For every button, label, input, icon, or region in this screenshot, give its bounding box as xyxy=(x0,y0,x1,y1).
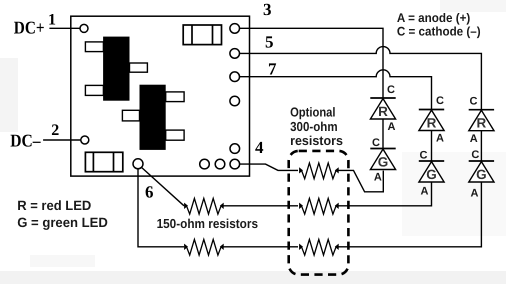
svg-text:R: R xyxy=(378,104,388,119)
svg-text:G: G xyxy=(476,167,487,182)
svg-text:R: R xyxy=(477,116,487,131)
svg-text:C = cathode (–): C = cathode (–) xyxy=(397,25,481,39)
svg-text:C: C xyxy=(470,96,478,108)
pin 5 xyxy=(230,49,240,59)
wire row3 between resistors xyxy=(223,246,298,248)
resistor 150-ohm row 2 xyxy=(185,198,224,214)
LED red D1 xyxy=(370,98,395,119)
svg-text:DC–: DC– xyxy=(10,131,41,151)
LED column 2 connecting wire xyxy=(431,130,433,161)
transistor Q2 (black body with 3 tabs) xyxy=(122,85,184,150)
resistor 150-ohm row 3 xyxy=(185,239,224,255)
wire DC- to pin 2 xyxy=(43,139,81,141)
unused pin xyxy=(230,96,240,106)
svg-text:6: 6 xyxy=(145,182,154,201)
svg-text:A: A xyxy=(471,188,479,200)
LED red D5 xyxy=(469,110,494,131)
svg-text:5: 5 xyxy=(265,32,274,51)
wire pin 5 to LED column 3 (hops over column-1 wire) xyxy=(240,47,482,110)
svg-text:2: 2 xyxy=(51,122,59,139)
svg-text:150-ohm resistors: 150-ohm resistors xyxy=(157,216,258,231)
svg-text:G: G xyxy=(378,155,389,170)
svg-text:R = red LED: R = red LED xyxy=(17,198,91,213)
LED green D2 xyxy=(370,149,395,170)
faint background patches xyxy=(0,58,18,132)
svg-text:A = anode (+): A = anode (+) xyxy=(397,11,470,25)
svg-text:R: R xyxy=(427,116,437,131)
svg-text:C: C xyxy=(387,84,395,96)
LED green D6 xyxy=(469,161,494,182)
wire resistor row1 to LED column 1 bottom (detour under label) xyxy=(338,170,383,191)
wire pin 6 down and right to 150-ohm resistor row 3 xyxy=(138,169,184,247)
pin 6 xyxy=(133,159,143,169)
circuit board outline xyxy=(71,16,250,176)
LED red D3 xyxy=(419,110,444,131)
dashed optional-resistor box xyxy=(289,151,349,275)
svg-text:7: 7 xyxy=(268,60,277,79)
wire DC+ to pin 1 xyxy=(49,27,80,29)
wire pin 3 to LED column 1 xyxy=(240,28,383,98)
svg-text:C: C xyxy=(436,95,444,107)
LED green D4 xyxy=(419,161,444,182)
pin 1 xyxy=(80,24,88,32)
wire row2 between resistors xyxy=(223,205,298,207)
svg-text:C: C xyxy=(471,149,479,161)
svg-text:1: 1 xyxy=(48,12,56,29)
svg-text:G = green LED: G = green LED xyxy=(17,215,108,230)
pad row xyxy=(200,159,210,169)
transistor Q1 (black body with 3 tabs) xyxy=(85,37,147,101)
svg-text:3: 3 xyxy=(263,0,272,19)
IC/resistor pack bottom-left on board xyxy=(85,152,122,171)
resistor 300-ohm row 1 xyxy=(300,163,339,179)
svg-text:A: A xyxy=(436,132,444,144)
svg-text:300-ohm: 300-ohm xyxy=(290,119,338,134)
svg-text:A: A xyxy=(374,172,382,184)
svg-text:4: 4 xyxy=(255,138,264,157)
svg-text:Optional: Optional xyxy=(290,104,335,119)
IC/resistor pack top-right on board xyxy=(183,25,221,45)
pin 7 xyxy=(230,72,240,82)
pin 4 xyxy=(230,159,240,169)
wire pin 6 diagonal to 150-ohm resistor row 2 xyxy=(142,167,185,205)
LED column 1 connecting wire xyxy=(382,119,384,149)
svg-text:A: A xyxy=(388,121,396,133)
wire pin 4 to resistor row 1 xyxy=(240,164,298,170)
unused pin above pad row xyxy=(230,144,240,154)
svg-text:A: A xyxy=(421,186,429,198)
wire pin 7 to LED column 2 (hops over column-1 wire) xyxy=(240,70,432,110)
svg-text:A: A xyxy=(470,133,478,145)
resistor 300-ohm row 2 xyxy=(300,198,339,214)
svg-text:resistors: resistors xyxy=(290,133,343,148)
wire row2 to LED column 2 bottom xyxy=(338,182,431,206)
svg-text:DC+: DC+ xyxy=(14,18,45,38)
svg-text:G: G xyxy=(426,167,437,182)
pin 2 xyxy=(81,136,89,144)
resistor 300-ohm row 3 xyxy=(300,239,339,255)
svg-text:C: C xyxy=(372,137,380,149)
LED column 3 connecting wire xyxy=(480,131,482,161)
svg-text:C: C xyxy=(420,149,428,161)
wire row3 to LED column 3 bottom xyxy=(338,182,481,246)
pin 3 xyxy=(230,24,240,34)
